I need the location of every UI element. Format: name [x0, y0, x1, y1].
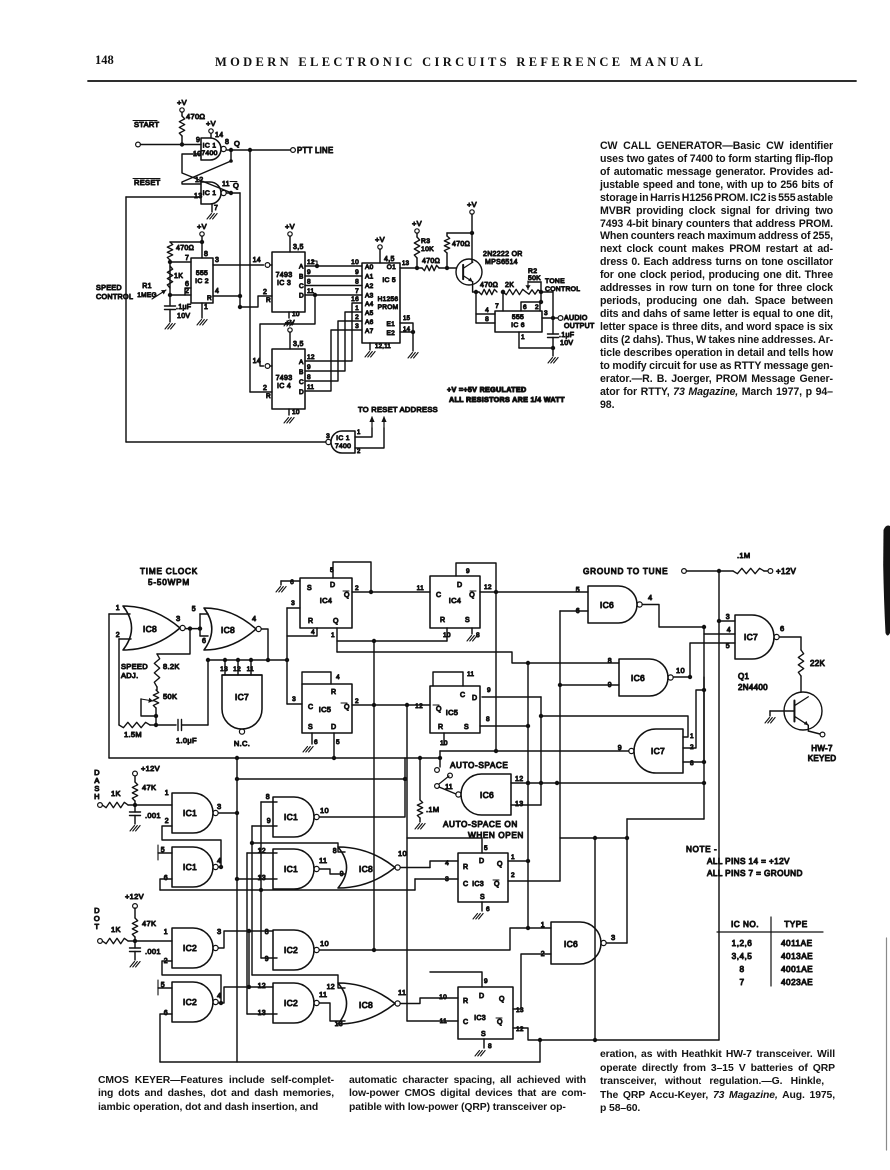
- svg-text:SPEED: SPEED: [121, 662, 148, 671]
- svg-text:2: 2: [535, 304, 539, 311]
- svg-text:IC 5: IC 5: [382, 277, 396, 284]
- svg-text:AUTO-SPACE: AUTO-SPACE: [450, 761, 508, 770]
- svg-text:47K: 47K: [142, 919, 156, 928]
- svg-text:3: 3: [176, 614, 180, 623]
- svg-text:1.5M: 1.5M: [124, 730, 142, 739]
- svg-text:2K: 2K: [505, 282, 514, 289]
- svg-text:470Ω: 470Ω: [422, 258, 440, 265]
- svg-text:12: 12: [327, 984, 335, 991]
- svg-text:6: 6: [290, 579, 294, 586]
- svg-text:IC2: IC2: [183, 943, 197, 953]
- svg-text:SPEED: SPEED: [96, 283, 122, 292]
- svg-text:Q: Q: [497, 861, 503, 868]
- svg-text:1K: 1K: [174, 273, 183, 280]
- svg-text:10: 10: [439, 994, 447, 1001]
- svg-text:A1: A1: [365, 274, 374, 281]
- svg-text:IC4: IC4: [449, 596, 462, 605]
- svg-text:IC 6: IC 6: [511, 322, 525, 329]
- svg-text:8: 8: [485, 316, 489, 323]
- svg-text:R1: R1: [142, 283, 152, 290]
- svg-text:3: 3: [292, 696, 296, 703]
- svg-text:Q: Q: [497, 1019, 503, 1026]
- svg-text:R3: R3: [421, 238, 430, 245]
- svg-text:A: A: [299, 264, 304, 271]
- svg-text:CONTROL: CONTROL: [96, 292, 133, 301]
- svg-text:+V =+5V REGULATED: +V =+5V REGULATED: [447, 385, 526, 394]
- svg-text:8: 8: [204, 251, 208, 258]
- svg-text:3: 3: [611, 933, 615, 942]
- svg-text:2: 2: [263, 289, 267, 296]
- svg-text:NOTE -: NOTE -: [686, 845, 717, 854]
- svg-text:10: 10: [320, 806, 329, 815]
- svg-text:IC 1: IC 1: [336, 435, 350, 442]
- svg-text:9: 9: [267, 818, 271, 825]
- svg-text:11: 11: [307, 384, 314, 391]
- svg-text:12: 12: [233, 666, 241, 673]
- svg-text:11: 11: [222, 181, 230, 188]
- svg-text:R: R: [266, 297, 271, 304]
- svg-text:7: 7: [739, 978, 744, 987]
- svg-text:.1μF: .1μF: [176, 304, 191, 311]
- svg-text:4: 4: [217, 856, 221, 865]
- svg-text:+12V: +12V: [125, 892, 144, 901]
- svg-text:3,5: 3,5: [293, 244, 304, 251]
- svg-text:A4: A4: [365, 301, 374, 308]
- svg-text:50K: 50K: [528, 275, 541, 282]
- svg-text:Q: Q: [469, 592, 475, 599]
- svg-text:6: 6: [780, 624, 784, 633]
- svg-text:R: R: [463, 998, 468, 1005]
- svg-text:8: 8: [690, 760, 694, 767]
- svg-text:+V: +V: [285, 222, 295, 231]
- svg-text:A: A: [299, 359, 304, 366]
- svg-text:470Ω: 470Ω: [452, 241, 470, 248]
- svg-text:C: C: [463, 1019, 468, 1026]
- svg-text:12,11: 12,11: [375, 344, 391, 350]
- svg-text:Q: Q: [233, 181, 239, 190]
- svg-text:7400: 7400: [335, 443, 351, 450]
- svg-text:4013AE: 4013AE: [781, 952, 813, 961]
- svg-text:8.2K: 8.2K: [163, 662, 180, 671]
- svg-text:10K: 10K: [421, 246, 434, 253]
- svg-text:D: D: [479, 858, 484, 865]
- svg-text:2: 2: [355, 698, 359, 705]
- svg-text:S: S: [465, 617, 470, 624]
- svg-text:6: 6: [314, 739, 318, 746]
- svg-text:1: 1: [164, 929, 168, 936]
- svg-text:R: R: [266, 393, 271, 400]
- svg-text:3: 3: [215, 257, 219, 264]
- svg-text:7493: 7493: [276, 272, 293, 279]
- svg-text:+V: +V: [375, 235, 385, 244]
- svg-text:14: 14: [215, 132, 223, 139]
- svg-text:10: 10: [320, 939, 329, 948]
- svg-text:3: 3: [217, 802, 221, 811]
- svg-text:1: 1: [331, 632, 335, 639]
- svg-text:3: 3: [544, 310, 548, 317]
- svg-text:8: 8: [488, 1043, 492, 1050]
- svg-text:2N2222 OR: 2N2222 OR: [483, 251, 523, 258]
- svg-text:10: 10: [292, 409, 300, 416]
- svg-text:15: 15: [403, 316, 411, 322]
- svg-text:IC7: IC7: [235, 692, 249, 702]
- svg-text:3,5: 3,5: [293, 341, 304, 348]
- svg-text:1: 1: [357, 430, 361, 436]
- svg-text:5-50WPM: 5-50WPM: [148, 578, 190, 587]
- svg-text:S: S: [464, 724, 469, 731]
- svg-text:4023AE: 4023AE: [781, 978, 813, 987]
- svg-text:12: 12: [195, 177, 203, 184]
- svg-text:6: 6: [185, 281, 189, 288]
- svg-text:D: D: [331, 724, 336, 731]
- svg-text:1.0μF: 1.0μF: [176, 736, 197, 745]
- svg-text:IC 1: IC 1: [203, 190, 217, 197]
- svg-text:+V: +V: [197, 222, 207, 231]
- svg-text:1K: 1K: [111, 925, 121, 934]
- svg-text:+12V: +12V: [776, 567, 796, 576]
- svg-text:7: 7: [495, 303, 499, 310]
- svg-text:1: 1: [511, 854, 515, 861]
- svg-text:7: 7: [185, 255, 189, 262]
- svg-text:OUTPUT: OUTPUT: [564, 323, 595, 330]
- svg-text:22K: 22K: [810, 659, 825, 668]
- svg-text:10V: 10V: [560, 340, 573, 347]
- svg-text:E2: E2: [386, 330, 395, 337]
- svg-text:IC2: IC2: [183, 997, 197, 1007]
- svg-text:16: 16: [351, 296, 359, 303]
- svg-text:TIME CLOCK: TIME CLOCK: [140, 567, 198, 576]
- svg-text:50K: 50K: [163, 692, 177, 701]
- svg-text:Q: Q: [344, 704, 350, 711]
- svg-text:D: D: [457, 582, 462, 589]
- svg-text:11: 11: [247, 666, 254, 673]
- svg-text:Q: Q: [344, 592, 350, 599]
- svg-text:PTT LINE: PTT LINE: [297, 146, 334, 155]
- svg-text:11: 11: [417, 585, 424, 592]
- svg-text:IC6: IC6: [631, 673, 645, 683]
- svg-text:PROM: PROM: [378, 304, 399, 311]
- svg-text:HW-7: HW-7: [811, 744, 833, 753]
- svg-text:IC8: IC8: [221, 625, 235, 635]
- svg-text:H: H: [94, 792, 100, 801]
- svg-text:ADJ.: ADJ.: [121, 671, 138, 680]
- svg-text:4: 4: [252, 614, 256, 623]
- svg-text:2: 2: [355, 585, 359, 592]
- svg-text:T: T: [95, 922, 100, 931]
- svg-text:IC4: IC4: [320, 596, 333, 605]
- svg-text:S: S: [481, 1031, 486, 1038]
- svg-text:2: 2: [263, 385, 267, 392]
- svg-text:13: 13: [220, 666, 228, 673]
- svg-text:9: 9: [355, 269, 359, 276]
- svg-text:Q: Q: [333, 618, 339, 625]
- svg-text:9: 9: [466, 568, 470, 575]
- svg-text:3: 3: [217, 927, 221, 936]
- svg-text:3,4,5: 3,4,5: [732, 952, 753, 961]
- svg-text:14: 14: [253, 257, 261, 264]
- svg-text:D: D: [479, 993, 484, 1000]
- svg-text:IC 1: IC 1: [203, 143, 217, 150]
- svg-text:1: 1: [690, 733, 694, 740]
- svg-text:7: 7: [214, 205, 218, 212]
- svg-text:470Ω: 470Ω: [186, 112, 205, 121]
- svg-text:5: 5: [726, 643, 730, 650]
- svg-text:A2: A2: [365, 283, 374, 290]
- svg-text:AUDIO: AUDIO: [564, 315, 588, 322]
- svg-text:H1256: H1256: [378, 296, 399, 303]
- svg-text:A5: A5: [365, 310, 374, 317]
- svg-text:A3: A3: [365, 293, 374, 300]
- svg-text:12: 12: [515, 776, 523, 783]
- svg-text:R: R: [463, 864, 468, 871]
- svg-text:10: 10: [398, 849, 407, 858]
- svg-text:R2: R2: [528, 268, 537, 275]
- svg-text:.001: .001: [145, 811, 161, 820]
- svg-text:C: C: [308, 704, 313, 711]
- svg-text:12: 12: [484, 584, 492, 591]
- svg-text:1: 1: [355, 305, 359, 312]
- svg-text:IC3: IC3: [474, 1015, 486, 1022]
- svg-text:3: 3: [355, 323, 359, 330]
- svg-text:IC2: IC2: [284, 998, 298, 1008]
- svg-text:5: 5: [192, 606, 196, 613]
- svg-text:+V: +V: [412, 219, 422, 228]
- svg-text:8: 8: [225, 139, 229, 146]
- svg-text:TO RESET ADDRESS: TO RESET ADDRESS: [358, 405, 438, 414]
- svg-text:A6: A6: [365, 319, 374, 326]
- svg-text:12: 12: [307, 354, 315, 361]
- svg-text:7400: 7400: [201, 150, 217, 157]
- svg-text:11: 11: [398, 988, 406, 997]
- svg-text:9: 9: [487, 687, 491, 694]
- svg-text:RESET: RESET: [134, 178, 161, 187]
- svg-text:R: R: [308, 618, 313, 625]
- svg-text:.001: .001: [145, 947, 161, 956]
- svg-text:IC5: IC5: [319, 705, 332, 714]
- svg-text:C: C: [463, 881, 468, 888]
- svg-text:8: 8: [266, 794, 270, 801]
- svg-text:8: 8: [739, 965, 744, 974]
- svg-text:TYPE: TYPE: [784, 920, 807, 929]
- svg-text:.1M: .1M: [737, 551, 750, 560]
- svg-text:MPS6514: MPS6514: [485, 259, 518, 266]
- svg-text:1: 1: [165, 790, 169, 797]
- svg-text:A7: A7: [365, 328, 374, 335]
- svg-text:4: 4: [485, 307, 489, 314]
- svg-text:R: R: [331, 689, 336, 696]
- svg-text:11: 11: [445, 784, 453, 791]
- svg-text:C: C: [299, 283, 304, 290]
- svg-text:12: 12: [307, 259, 315, 266]
- svg-text:11: 11: [319, 990, 327, 999]
- svg-text:A0: A0: [365, 264, 374, 271]
- svg-text:6: 6: [202, 638, 206, 645]
- svg-text:R: R: [438, 724, 443, 731]
- svg-text:IC7: IC7: [651, 746, 665, 756]
- svg-text:12: 12: [415, 703, 423, 710]
- svg-text:4: 4: [217, 991, 221, 1000]
- svg-text:5: 5: [484, 845, 488, 852]
- svg-text:4: 4: [311, 629, 315, 636]
- svg-text:D: D: [330, 582, 335, 589]
- svg-text:CONTROL: CONTROL: [545, 286, 580, 293]
- svg-text:IC8: IC8: [359, 1000, 373, 1010]
- svg-text:+V: +V: [177, 98, 187, 107]
- svg-text:S: S: [307, 585, 312, 592]
- svg-text:+V: +V: [467, 200, 477, 209]
- svg-text:KEYED: KEYED: [808, 754, 837, 763]
- svg-text:10: 10: [676, 666, 685, 675]
- svg-text:2: 2: [116, 632, 120, 639]
- svg-text:1: 1: [521, 334, 525, 341]
- svg-text:11: 11: [467, 671, 474, 678]
- svg-text:470Ω: 470Ω: [480, 282, 498, 289]
- svg-text:D: D: [299, 293, 304, 300]
- svg-text:AUTO-SPACE ON: AUTO-SPACE ON: [443, 820, 518, 829]
- svg-text:9: 9: [265, 956, 269, 963]
- svg-text:D: D: [299, 389, 304, 396]
- svg-text:D: D: [472, 695, 477, 702]
- svg-text:12: 12: [258, 848, 266, 855]
- svg-text:IC1: IC1: [284, 812, 298, 822]
- svg-text:+V: +V: [206, 119, 216, 128]
- svg-text:1: 1: [204, 304, 208, 311]
- svg-text:3: 3: [726, 614, 730, 621]
- svg-text:8: 8: [333, 848, 337, 855]
- svg-text:IC8: IC8: [143, 624, 157, 634]
- svg-text:6: 6: [523, 304, 527, 311]
- svg-text:1,2,6: 1,2,6: [732, 939, 753, 948]
- svg-text:3: 3: [291, 600, 295, 607]
- svg-text:13: 13: [402, 261, 410, 267]
- svg-text:3: 3: [326, 433, 330, 440]
- svg-text:IC 4: IC 4: [277, 383, 291, 390]
- svg-text:9: 9: [484, 978, 488, 985]
- svg-text:2: 2: [355, 314, 359, 321]
- svg-text:ALL RESISTORS ARE 1/4 WATT: ALL RESISTORS ARE 1/4 WATT: [449, 395, 565, 404]
- svg-text:7: 7: [355, 288, 359, 295]
- svg-text:8: 8: [307, 279, 311, 286]
- svg-text:470Ω: 470Ω: [176, 245, 194, 252]
- svg-text:5: 5: [576, 587, 580, 594]
- svg-text:R: R: [440, 617, 445, 624]
- svg-text:Q: Q: [436, 706, 442, 713]
- svg-text:GROUND TO TUNE: GROUND TO TUNE: [583, 567, 668, 576]
- svg-text:6: 6: [486, 906, 490, 913]
- svg-text:10V: 10V: [177, 313, 190, 320]
- svg-text:555: 555: [512, 314, 524, 321]
- svg-text:IC6: IC6: [564, 939, 578, 949]
- svg-text:C: C: [436, 592, 441, 599]
- svg-text:IC3: IC3: [472, 881, 484, 888]
- svg-text:IC8: IC8: [359, 864, 373, 874]
- svg-text:14: 14: [253, 358, 261, 365]
- svg-text:8: 8: [608, 658, 612, 665]
- svg-text:IC 2: IC 2: [195, 278, 209, 285]
- svg-text:4: 4: [445, 860, 449, 867]
- svg-text:9: 9: [340, 871, 344, 878]
- svg-text:4,5: 4,5: [384, 256, 395, 263]
- svg-text:4: 4: [727, 627, 731, 634]
- svg-text:IC NO.: IC NO.: [731, 920, 759, 929]
- svg-text:TONE: TONE: [545, 278, 565, 285]
- svg-text:Q: Q: [499, 996, 505, 1003]
- svg-text:Q1: Q1: [738, 672, 750, 681]
- svg-text:8: 8: [265, 929, 269, 936]
- svg-text:7493: 7493: [276, 375, 293, 382]
- svg-text:9: 9: [307, 364, 311, 371]
- svg-text:8: 8: [486, 716, 490, 723]
- svg-text:O1: O1: [387, 264, 396, 271]
- svg-text:1K: 1K: [111, 789, 121, 798]
- svg-text:10: 10: [351, 259, 359, 266]
- svg-text:.1M: .1M: [426, 805, 439, 814]
- svg-text:B: B: [299, 274, 304, 281]
- svg-text:Q: Q: [234, 139, 240, 148]
- svg-text:2: 2: [357, 449, 361, 455]
- svg-text:11: 11: [319, 856, 327, 865]
- svg-text:+V: +V: [285, 318, 295, 327]
- svg-text:IC6: IC6: [480, 790, 494, 800]
- svg-text:ALL PINS 14 = +12V: ALL PINS 14 = +12V: [707, 857, 790, 866]
- svg-text:9: 9: [196, 137, 200, 144]
- svg-text:2: 2: [165, 818, 169, 825]
- svg-text:S: S: [308, 724, 313, 731]
- svg-text:47K: 47K: [142, 783, 156, 792]
- svg-text:.1μF: .1μF: [559, 332, 574, 339]
- svg-text:8: 8: [355, 279, 359, 286]
- svg-text:IC2: IC2: [284, 945, 298, 955]
- svg-text:9: 9: [307, 269, 311, 276]
- svg-text:4011AE: 4011AE: [781, 939, 813, 948]
- svg-text:IC6: IC6: [600, 600, 614, 610]
- svg-text:S: S: [480, 894, 485, 901]
- svg-text:12: 12: [258, 983, 266, 990]
- svg-text:IC 3: IC 3: [277, 280, 291, 287]
- svg-text:Q: Q: [494, 881, 500, 888]
- svg-text:B: B: [299, 369, 304, 376]
- svg-text:E1: E1: [386, 321, 395, 328]
- svg-text:4001AE: 4001AE: [781, 965, 813, 974]
- svg-text:IC1: IC1: [183, 808, 197, 818]
- svg-text:IC1: IC1: [284, 864, 298, 874]
- svg-text:2: 2: [511, 872, 515, 879]
- svg-text:IC1: IC1: [183, 862, 197, 872]
- svg-text:C: C: [460, 692, 465, 699]
- svg-text:START: START: [134, 120, 160, 129]
- svg-text:ALL PINS 7 = GROUND: ALL PINS 7 = GROUND: [707, 869, 803, 878]
- svg-text:10: 10: [292, 311, 300, 318]
- svg-text:IC7: IC7: [744, 632, 758, 642]
- svg-text:2N4400: 2N4400: [738, 683, 768, 692]
- svg-text:R: R: [207, 295, 212, 302]
- svg-text:8: 8: [307, 374, 311, 381]
- svg-text:C: C: [299, 379, 304, 386]
- svg-text:5: 5: [336, 739, 340, 746]
- svg-text:IC5: IC5: [446, 708, 459, 717]
- svg-text:12: 12: [516, 1026, 524, 1033]
- svg-text:4: 4: [648, 593, 652, 602]
- svg-text:1: 1: [116, 605, 120, 612]
- svg-text:4: 4: [215, 288, 219, 295]
- svg-text:555: 555: [196, 270, 208, 277]
- svg-text:13: 13: [335, 1021, 343, 1028]
- svg-text:N.C.: N.C.: [234, 739, 250, 748]
- svg-text:+12V: +12V: [141, 764, 160, 773]
- svg-text:13: 13: [516, 1007, 524, 1014]
- svg-text:14: 14: [403, 327, 411, 333]
- svg-text:4: 4: [336, 674, 340, 681]
